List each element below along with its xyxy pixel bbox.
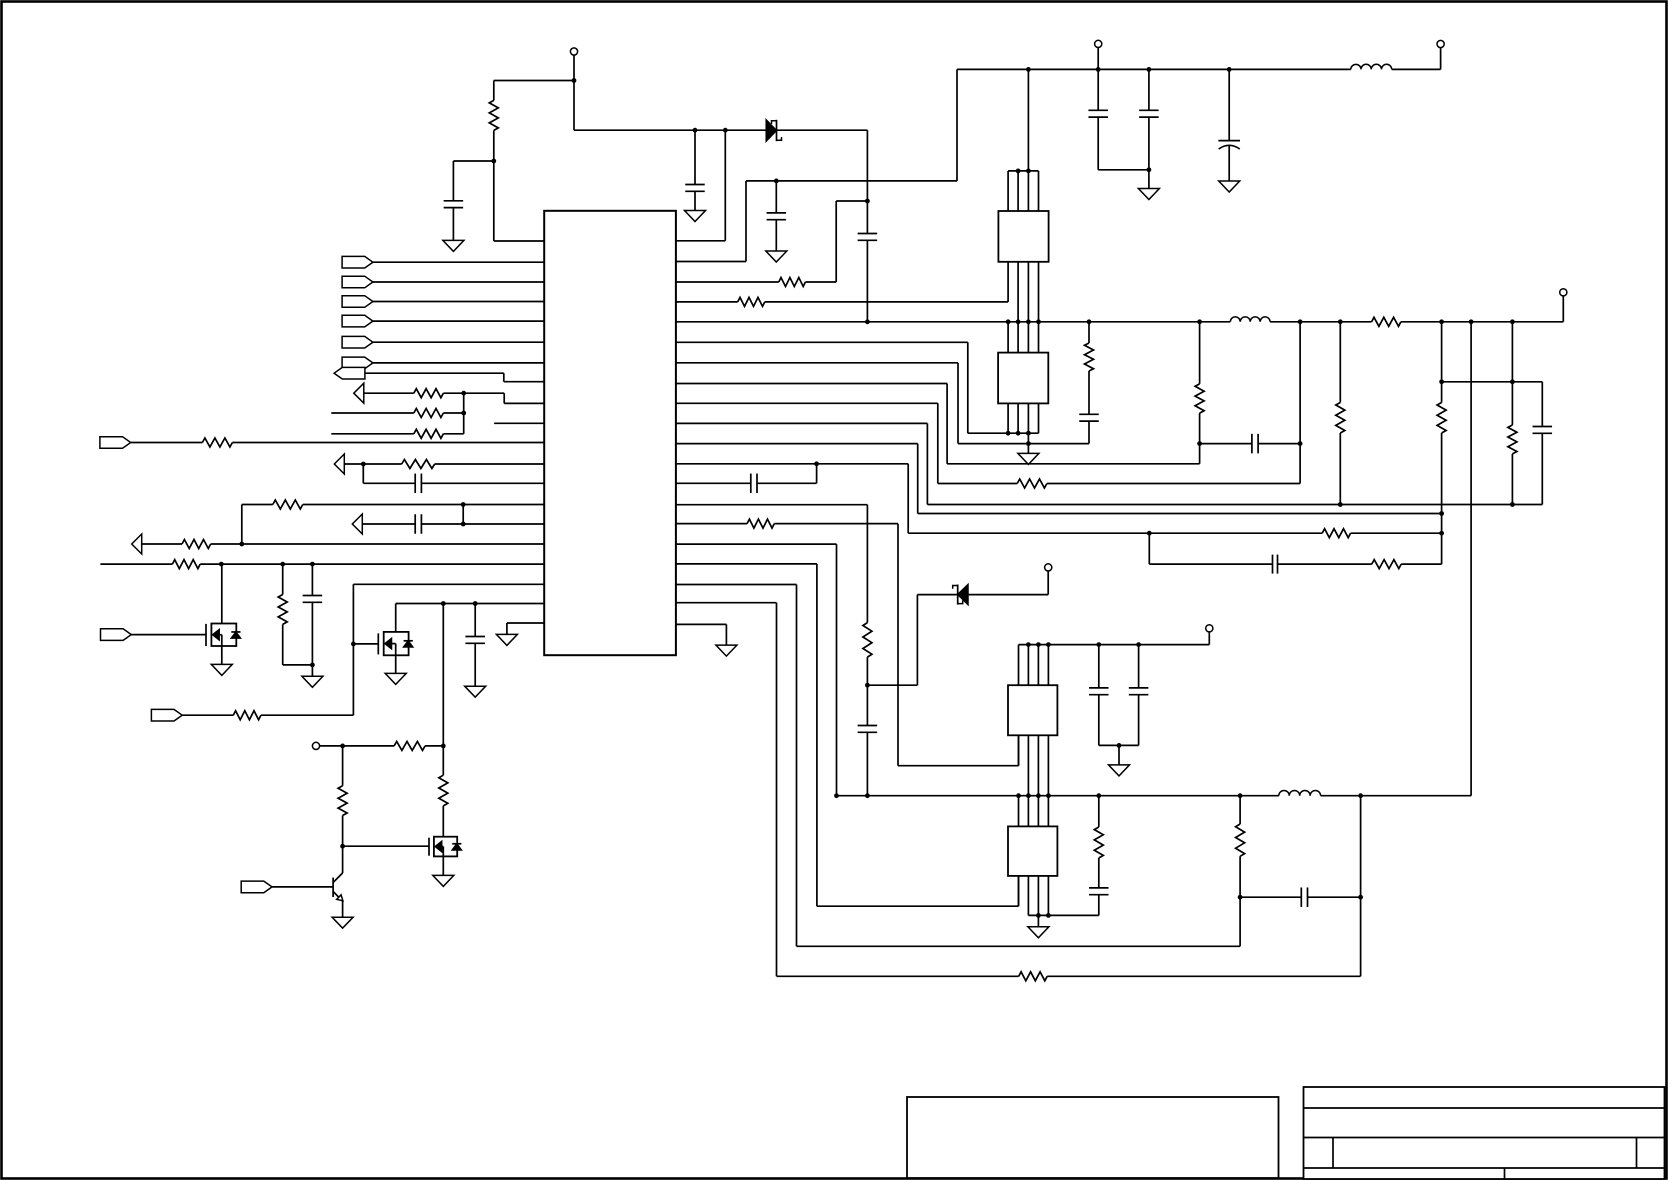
wire pin xyxy=(504,402,544,404)
wire xyxy=(1228,145,1230,181)
wire xyxy=(725,624,727,645)
ground xyxy=(1028,927,1049,938)
wire xyxy=(452,161,454,201)
wire pin xyxy=(373,341,544,343)
capacitor C18 xyxy=(414,474,416,494)
wire pin xyxy=(373,362,544,364)
node xyxy=(351,642,356,647)
wire bus stub xyxy=(1007,322,1009,353)
node xyxy=(1016,431,1021,436)
node xyxy=(1036,642,1041,647)
wire xyxy=(311,564,313,595)
node xyxy=(1026,431,1031,436)
node xyxy=(441,744,446,749)
resistor R25 xyxy=(172,560,200,569)
wire xyxy=(1258,443,1300,445)
ground xyxy=(465,686,486,697)
capacitor C10 xyxy=(1533,426,1553,428)
capacitor C17 xyxy=(1300,887,1302,907)
IC U3 regulator xyxy=(998,353,1048,404)
ground xyxy=(302,676,323,687)
node xyxy=(310,663,315,668)
wire xyxy=(1098,895,1100,916)
node xyxy=(1298,319,1303,324)
wire pin xyxy=(373,301,544,303)
node xyxy=(1016,169,1021,174)
wire xyxy=(272,886,333,888)
wire bus xyxy=(1027,796,1029,827)
wire xyxy=(1088,421,1090,444)
wire xyxy=(464,392,505,394)
wire xyxy=(1511,322,1513,425)
wire xyxy=(211,543,242,545)
wire pin xyxy=(676,543,837,545)
capacitor C8 xyxy=(1079,413,1099,415)
node xyxy=(361,462,366,467)
wire xyxy=(694,191,696,210)
ground xyxy=(1219,181,1240,192)
wire pin xyxy=(373,281,544,283)
wire xyxy=(1088,322,1090,343)
wire pin xyxy=(463,504,544,506)
capacitor C19 xyxy=(414,514,416,534)
node xyxy=(1510,502,1515,507)
wire xyxy=(1440,47,1442,69)
wire xyxy=(1239,856,1241,897)
resistor R1 xyxy=(489,100,498,130)
wire bus xyxy=(1018,876,1020,906)
port P12 xyxy=(132,534,142,554)
wire xyxy=(362,523,415,525)
wire xyxy=(1541,433,1543,504)
wire bus xyxy=(1047,735,1049,795)
wire xyxy=(1392,68,1441,70)
wire bus xyxy=(1047,796,1049,827)
resistor R27 xyxy=(233,711,261,720)
wire xyxy=(303,504,463,506)
wire xyxy=(474,643,476,686)
wire xyxy=(926,423,928,504)
wire xyxy=(342,746,344,786)
resistor R23 xyxy=(273,500,303,509)
wire net xyxy=(331,412,414,414)
wire pin xyxy=(421,482,544,484)
port P1 xyxy=(342,256,373,268)
capacitor C15 xyxy=(1129,687,1149,689)
wire row xyxy=(1149,563,1272,565)
terminal J4 xyxy=(1560,289,1567,296)
wire xyxy=(283,664,313,666)
wire xyxy=(506,623,508,634)
node xyxy=(1036,913,1041,918)
node xyxy=(1298,441,1303,446)
wire bus xyxy=(1018,735,1020,765)
node xyxy=(1469,319,1474,324)
node xyxy=(1026,793,1031,798)
ground xyxy=(766,251,787,262)
wire xyxy=(1098,695,1100,746)
node xyxy=(1358,793,1363,798)
wire xyxy=(442,604,444,746)
wire bus xyxy=(1007,171,1009,211)
wire xyxy=(1047,571,1049,595)
node xyxy=(1006,319,1011,324)
wire xyxy=(1047,975,1360,977)
wire xyxy=(342,901,344,917)
wire bus xyxy=(1017,403,1019,433)
resistor R29 xyxy=(439,775,448,806)
capacitor C21 xyxy=(465,636,485,638)
resistor R14 xyxy=(747,519,774,528)
resistor R19 xyxy=(414,409,444,418)
wire xyxy=(493,130,495,161)
resistor R4 xyxy=(1372,317,1401,326)
wire bus xyxy=(1027,403,1029,433)
wire xyxy=(805,281,836,283)
wire xyxy=(1098,645,1100,688)
node xyxy=(1036,319,1041,324)
IC U2 regulator xyxy=(998,211,1048,262)
wire bus xyxy=(1038,403,1040,433)
wire xyxy=(342,846,344,873)
node xyxy=(1227,67,1232,72)
wire pin xyxy=(676,623,726,625)
wire xyxy=(1470,322,1472,796)
wire bus top connector xyxy=(1019,644,1210,646)
wire bus xyxy=(1047,645,1049,686)
polarized capacitor C7 xyxy=(1218,140,1240,142)
node xyxy=(239,542,244,547)
wire xyxy=(421,523,463,525)
node xyxy=(1046,793,1051,798)
IC U1 main controller xyxy=(544,211,676,655)
wire bus top connector xyxy=(1008,170,1038,172)
port P7 xyxy=(334,367,365,379)
wire xyxy=(352,584,354,715)
wire bus xyxy=(1027,735,1029,795)
node xyxy=(1147,531,1152,536)
wire pin xyxy=(242,543,544,545)
wire pin xyxy=(676,504,867,506)
wire xyxy=(1138,645,1140,688)
node xyxy=(1096,642,1101,647)
capacitor C4 xyxy=(767,212,787,214)
node xyxy=(473,601,478,606)
node xyxy=(310,562,315,567)
title block left box xyxy=(907,1097,1279,1178)
wire xyxy=(343,845,429,847)
wire xyxy=(1441,322,1443,403)
node xyxy=(1006,431,1011,436)
wire xyxy=(131,634,206,636)
wire xyxy=(442,746,444,775)
wire xyxy=(775,220,777,251)
node xyxy=(1096,67,1101,72)
wire xyxy=(1148,170,1150,189)
ground xyxy=(685,211,706,222)
wire VDD rail xyxy=(676,321,1230,323)
gate bar Q2 xyxy=(377,633,379,654)
wire pin xyxy=(373,320,544,322)
ground xyxy=(385,673,406,684)
resistor R8 xyxy=(1336,403,1345,434)
node xyxy=(1439,379,1444,384)
wire xyxy=(1199,444,1201,464)
wire xyxy=(1401,321,1563,323)
resistor R16 xyxy=(1094,827,1103,858)
wire pin xyxy=(676,584,797,586)
wire xyxy=(242,504,273,506)
wire xyxy=(311,665,313,676)
resistor R6 xyxy=(1195,384,1204,413)
wire pin xyxy=(676,281,779,283)
wire xyxy=(182,714,233,716)
terminal J7 xyxy=(312,742,319,749)
wire xyxy=(221,646,223,664)
wire xyxy=(131,442,203,444)
node xyxy=(461,411,466,416)
wire xyxy=(1037,915,1039,926)
wire xyxy=(1442,381,1543,383)
wire xyxy=(395,604,397,632)
wire pin xyxy=(676,402,938,404)
wire xyxy=(916,595,918,686)
wire bus xyxy=(1027,645,1029,686)
node xyxy=(1026,642,1031,647)
wire xyxy=(724,130,726,241)
resistor R24 xyxy=(182,540,211,549)
port P6 xyxy=(342,357,373,369)
capacitor C14 xyxy=(1089,687,1109,689)
wire xyxy=(364,392,414,394)
resistor R15 xyxy=(1019,972,1047,981)
wire xyxy=(1308,896,1361,898)
node xyxy=(1026,441,1031,446)
wire xyxy=(866,505,868,623)
port P15 xyxy=(241,881,272,893)
wire xyxy=(1027,433,1029,443)
transistor Q2 xyxy=(384,632,413,655)
wire xyxy=(1270,321,1372,323)
wire bus xyxy=(1027,876,1029,916)
capacitor C5 xyxy=(1088,109,1108,111)
wire pin xyxy=(504,381,544,383)
node xyxy=(1238,895,1243,900)
wire xyxy=(1148,117,1150,170)
wire bus xyxy=(1027,171,1029,211)
node xyxy=(491,159,496,164)
wire xyxy=(956,69,958,180)
capacitor C2 xyxy=(685,184,705,186)
wire xyxy=(957,363,959,444)
inductor L1 xyxy=(1351,64,1392,69)
node xyxy=(1439,531,1444,536)
wire xyxy=(1098,796,1100,827)
wire xyxy=(907,464,909,533)
ground xyxy=(433,875,454,886)
wire row xyxy=(908,532,1322,534)
wire xyxy=(363,482,415,484)
node xyxy=(1046,913,1051,918)
wire bus bottom connector xyxy=(1028,914,1098,916)
wire pin xyxy=(353,583,544,585)
wire xyxy=(1047,483,1300,485)
wire xyxy=(1299,322,1301,484)
wire pin xyxy=(396,603,545,605)
node xyxy=(1016,319,1021,324)
capacitor C6 xyxy=(1139,109,1159,111)
wire xyxy=(282,624,284,665)
wire xyxy=(867,684,917,686)
node xyxy=(461,391,466,396)
node xyxy=(865,683,870,688)
wire pin xyxy=(200,563,544,565)
wire xyxy=(776,603,778,977)
node xyxy=(1439,511,1444,516)
wire VIN rail xyxy=(957,68,1351,70)
wire xyxy=(1098,169,1149,171)
wire xyxy=(958,443,1089,445)
wire xyxy=(777,129,868,131)
wire pin xyxy=(676,383,947,385)
resistor R18 xyxy=(414,389,444,398)
resistor R7 xyxy=(1017,479,1047,488)
terminal J3 xyxy=(1095,40,1102,47)
wire xyxy=(574,129,766,131)
wire xyxy=(836,200,867,202)
ground xyxy=(1138,189,1159,200)
transistor Q4 BJT xyxy=(333,873,343,901)
resistor R20 xyxy=(414,429,444,438)
wire xyxy=(816,564,818,906)
wire xyxy=(866,732,868,795)
wire xyxy=(442,806,444,837)
wire xyxy=(774,523,898,525)
wire xyxy=(221,564,223,623)
wire xyxy=(493,81,495,101)
resistor R13 xyxy=(863,623,872,658)
wire xyxy=(453,160,493,162)
node xyxy=(572,78,577,83)
port P14 xyxy=(151,709,182,721)
inductor L2 xyxy=(1230,317,1270,322)
wire xyxy=(282,564,284,594)
wire xyxy=(494,80,574,82)
wire xyxy=(463,393,465,434)
node xyxy=(1117,743,1122,748)
ground xyxy=(332,917,353,928)
node xyxy=(1147,167,1152,172)
wire xyxy=(1018,876,1020,906)
resistor R3 xyxy=(738,297,765,306)
node xyxy=(461,502,466,507)
wire xyxy=(1200,443,1252,445)
wire xyxy=(493,161,495,241)
port P11 xyxy=(352,514,362,534)
capacitor C9 xyxy=(1251,434,1253,454)
wire pin xyxy=(676,523,747,525)
port P8 xyxy=(354,383,364,403)
wire bus xyxy=(1007,262,1009,302)
wire xyxy=(142,543,182,545)
node xyxy=(865,793,870,798)
ground xyxy=(1109,765,1130,776)
capacitor C1 xyxy=(444,200,464,202)
wire xyxy=(917,444,919,514)
wire pin xyxy=(435,463,545,465)
capacitor C16 xyxy=(1089,887,1109,889)
terminal J6 xyxy=(1206,625,1213,632)
node xyxy=(1136,642,1141,647)
wire xyxy=(777,975,1019,977)
transistor Q3 xyxy=(434,837,462,857)
wire xyxy=(897,524,899,766)
wire xyxy=(261,714,354,716)
wire xyxy=(1339,433,1341,505)
wire pin xyxy=(676,240,725,242)
wire xyxy=(573,55,575,81)
gate bar Q1 xyxy=(205,624,207,646)
capacitor C3 xyxy=(858,233,878,235)
resistor R26 xyxy=(278,595,287,625)
wire pin xyxy=(676,301,738,303)
wire xyxy=(1401,563,1441,565)
capacitor C13 xyxy=(858,725,878,727)
wire bus xyxy=(1038,171,1040,211)
wire xyxy=(503,373,505,382)
IC U5 regulator xyxy=(1008,826,1057,876)
wire xyxy=(1339,322,1341,403)
wire pin xyxy=(676,463,908,465)
wire xyxy=(947,463,1200,465)
wire xyxy=(817,905,1019,907)
wire bus bottom connector xyxy=(968,432,1039,434)
node xyxy=(1026,319,1031,324)
ground xyxy=(1018,453,1039,464)
wire xyxy=(898,765,1019,767)
wire xyxy=(1099,744,1139,746)
port P2 xyxy=(342,276,373,288)
wire xyxy=(1118,745,1120,765)
ground xyxy=(716,645,737,656)
node xyxy=(1046,642,1051,647)
wire xyxy=(1278,563,1372,565)
wire xyxy=(866,240,868,321)
title block right xyxy=(1304,1087,1665,1179)
wire xyxy=(1239,897,1241,946)
wire bus xyxy=(1018,645,1020,686)
wire xyxy=(474,604,476,637)
wire xyxy=(395,655,397,673)
wire bus stub xyxy=(1018,796,1020,827)
node xyxy=(280,562,285,567)
resistor R17 xyxy=(1236,824,1245,856)
wire xyxy=(866,657,868,685)
wire xyxy=(1097,69,1099,110)
resistor R10 xyxy=(1508,425,1517,454)
node xyxy=(1036,793,1041,798)
wire xyxy=(1441,433,1443,564)
wire xyxy=(1239,796,1241,824)
wire pin stub xyxy=(494,422,544,424)
wire xyxy=(835,201,837,282)
node xyxy=(1338,319,1343,324)
wire bus xyxy=(1017,171,1019,211)
wire bus xyxy=(1037,876,1039,916)
wire bus xyxy=(1007,403,1009,433)
wire xyxy=(1208,632,1210,645)
wire xyxy=(765,301,1008,303)
